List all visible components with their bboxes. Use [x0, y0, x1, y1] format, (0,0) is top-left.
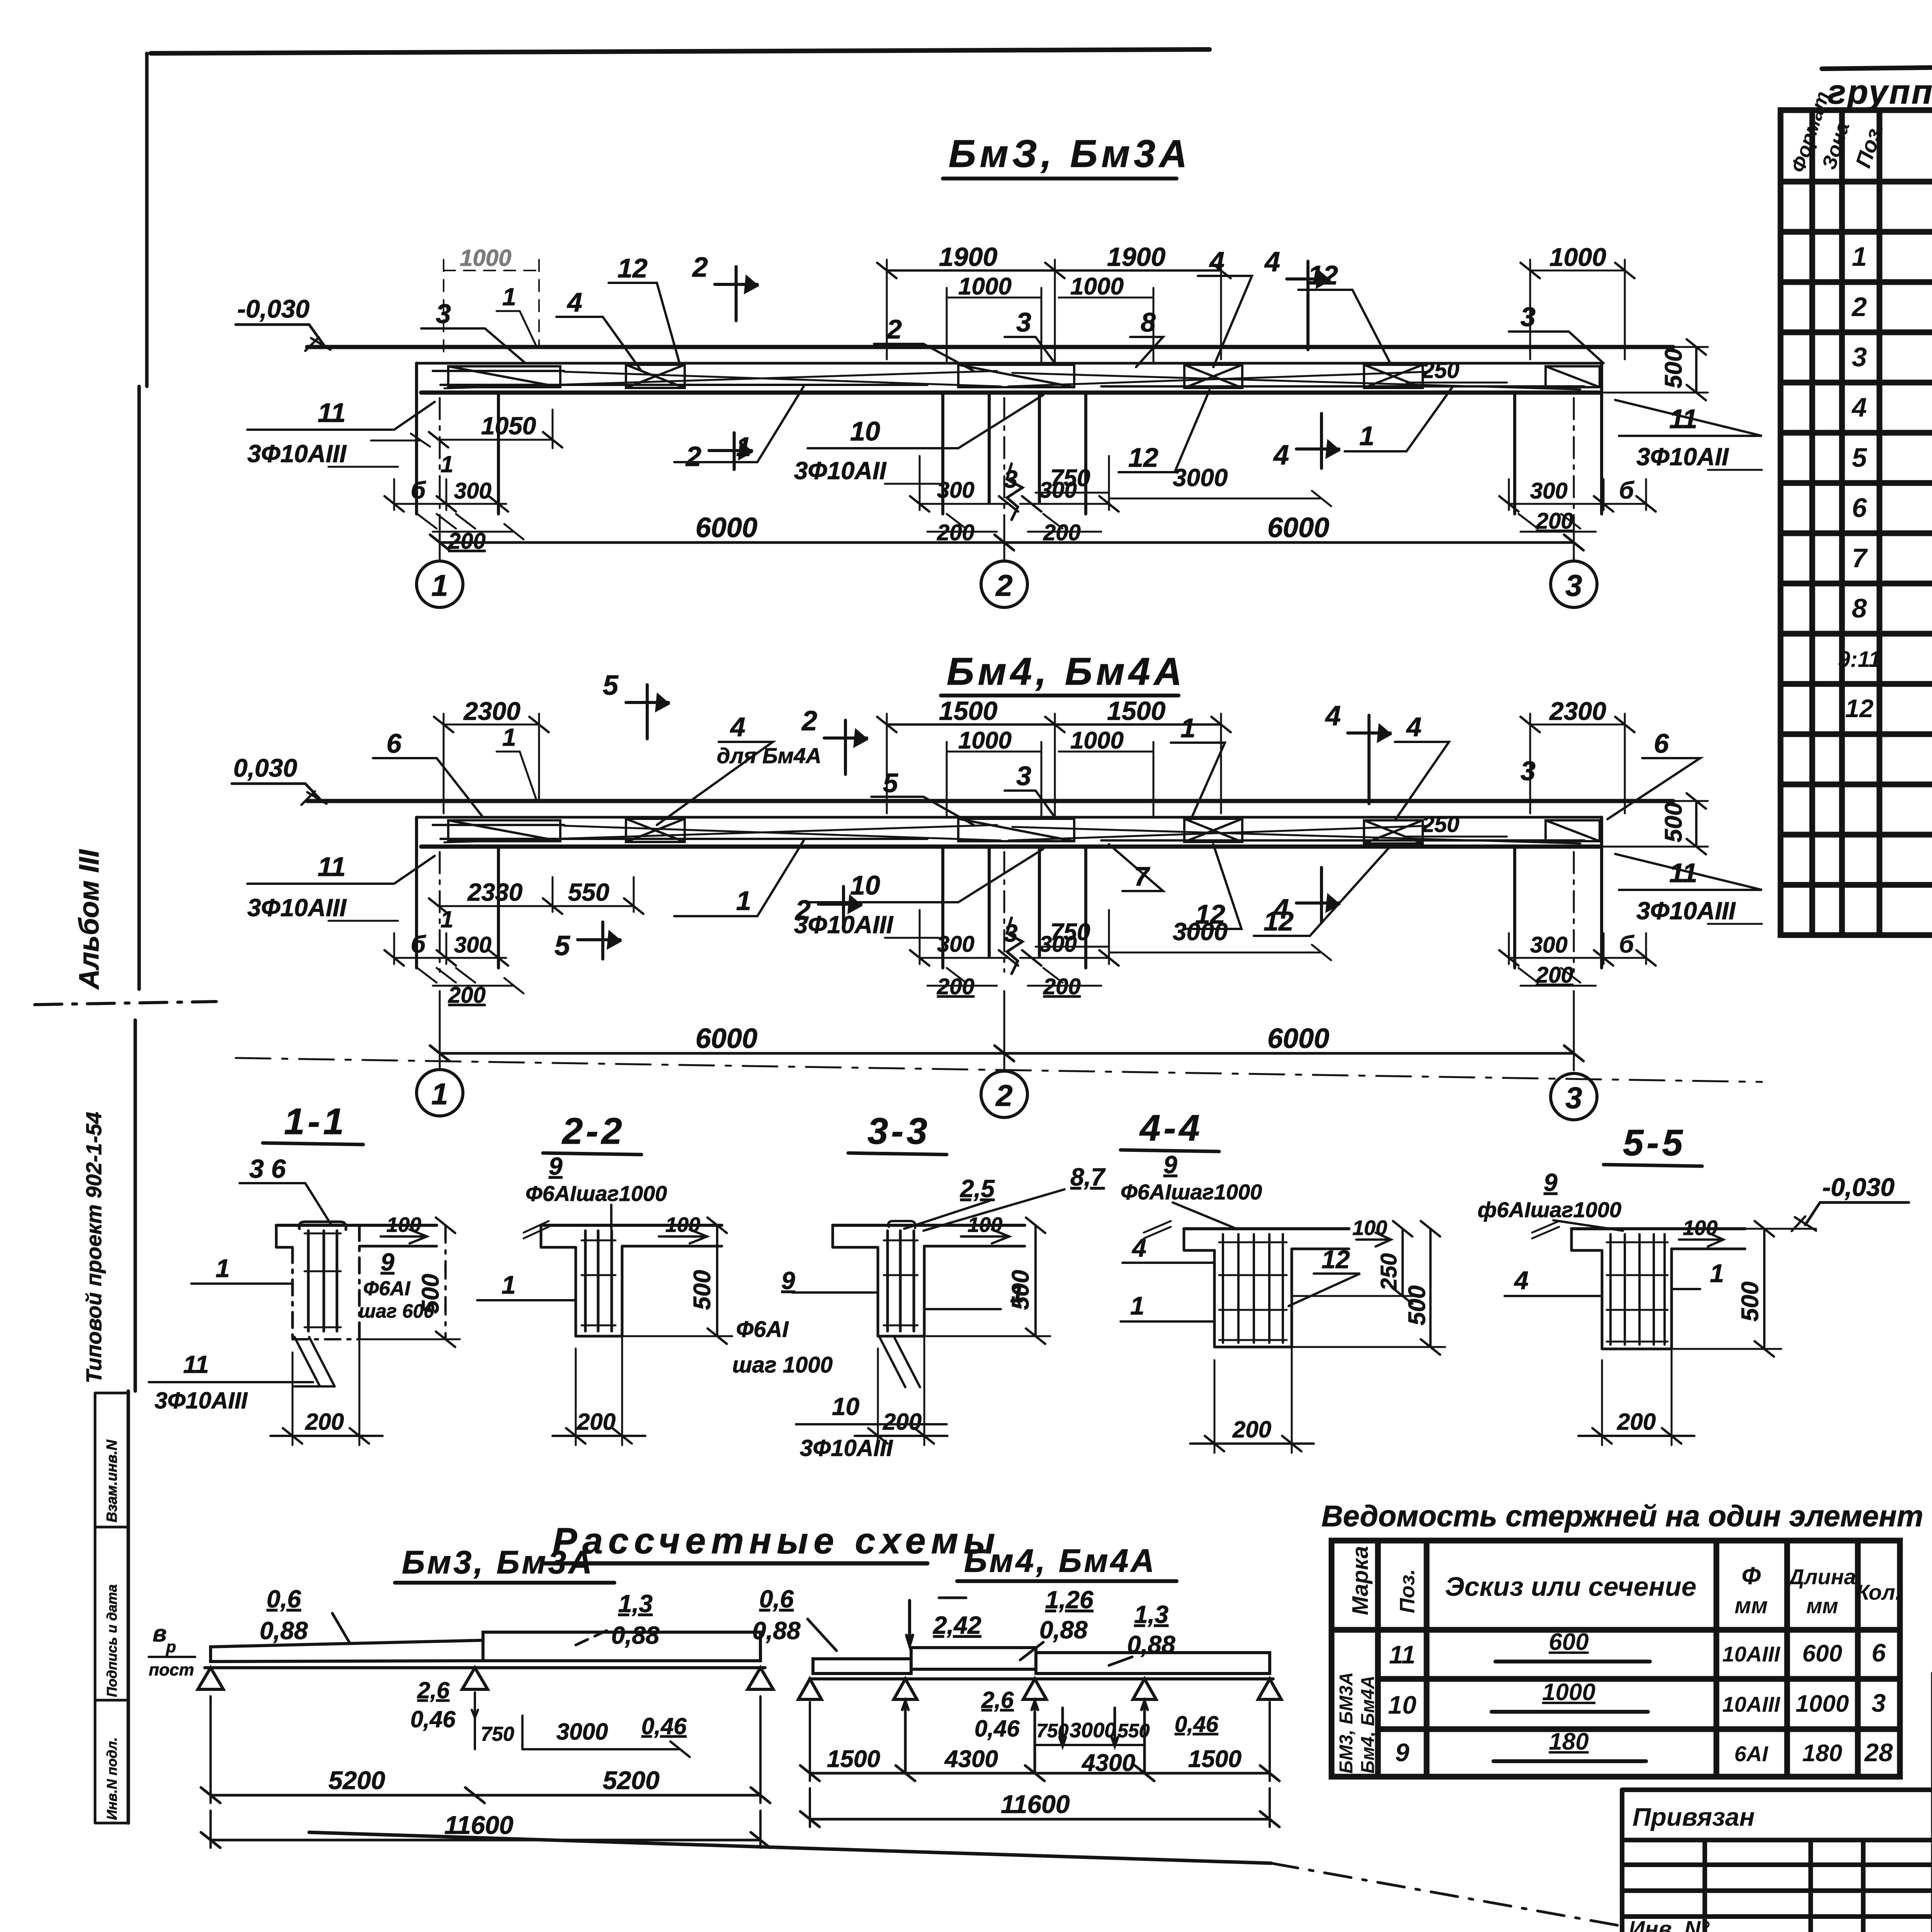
svg-text:10АIII: 10АIII	[1722, 1642, 1781, 1666]
svg-text:200: 200	[1536, 963, 1573, 988]
svg-text:3: 3	[1520, 756, 1536, 786]
svg-text:3: 3	[1565, 568, 1582, 602]
svg-text:6: 6	[386, 728, 402, 759]
svg-text:4: 4	[566, 287, 582, 317]
svg-text:пост: пост	[149, 1660, 194, 1679]
svg-text:Инв. N°: Инв. N°	[1629, 1917, 1710, 1932]
svg-text:6000: 6000	[696, 1023, 757, 1054]
svg-text:8: 8	[1852, 593, 1867, 623]
svg-text:Альбом III: Альбом III	[74, 849, 105, 990]
svg-text:3: 3	[1852, 342, 1867, 372]
svg-text:1: 1	[736, 432, 751, 462]
SPEC-TABLE top right: групповая спецификация	[1781, 73, 1932, 935]
svg-text:2: 2	[995, 1078, 1012, 1112]
svg-text:6АI: 6АI	[1734, 1742, 1769, 1766]
svg-text:7: 7	[1852, 543, 1868, 573]
svg-text:Кол.: Кол.	[1856, 1580, 1901, 1604]
svg-text:11600: 11600	[444, 1811, 514, 1839]
svg-text:250: 250	[1422, 812, 1459, 837]
svg-text:Ф6АI: Ф6АI	[736, 1317, 789, 1342]
svg-text:Рассчетные схемы: Рассчетные схемы	[553, 1520, 1000, 1561]
svg-text:6000: 6000	[1267, 1023, 1329, 1054]
svg-text:-0,030: -0,030	[1822, 1173, 1895, 1201]
svg-text:групповая спецификация для: групповая спецификация для монолитных ко…	[1828, 73, 1932, 111]
svg-text:б: б	[411, 477, 426, 504]
svg-text:1000: 1000	[1542, 1679, 1595, 1706]
svg-text:12: 12	[1845, 694, 1874, 723]
svg-text:3Ф10АIII: 3Ф10АIII	[1636, 897, 1736, 925]
svg-text:11: 11	[318, 398, 346, 428]
top dim right 1000	[1530, 260, 1625, 359]
wall centre dash-dot	[440, 398, 1574, 518]
svg-text:4: 4	[1273, 440, 1289, 471]
svg-text:1000: 1000	[460, 245, 511, 271]
svg-text:Ф6АIшаг1000: Ф6АIшаг1000	[1121, 1180, 1262, 1204]
svg-text:6000: 6000	[1267, 512, 1329, 543]
svg-text:9: 9	[381, 1248, 395, 1276]
wall bottom hatches	[417, 514, 475, 529]
svg-text:Поз.: Поз.	[1396, 1569, 1419, 1613]
support walls	[417, 363, 498, 514]
svg-text:750: 750	[1050, 465, 1090, 492]
top dims middle: 1500 1500 / 1000 1000	[887, 714, 1221, 817]
svg-text:1000: 1000	[1070, 273, 1124, 300]
svg-text:100: 100	[968, 1213, 1002, 1236]
svg-text:5: 5	[1852, 442, 1867, 473]
svg-text:1000: 1000	[958, 273, 1012, 300]
svg-text:100: 100	[1683, 1216, 1718, 1240]
beam bars	[211, 1640, 483, 1662]
svg-text:0,46: 0,46	[1175, 1712, 1219, 1737]
svg-text:6: 6	[1654, 728, 1669, 759]
svg-text:12: 12	[1321, 1245, 1350, 1274]
svg-text:1: 1	[736, 886, 751, 916]
svg-text:3: 3	[1016, 307, 1031, 337]
svg-text:2: 2	[1851, 292, 1867, 322]
svg-text:100: 100	[665, 1213, 700, 1236]
svg-text:2: 2	[801, 706, 817, 736]
svg-text:Бм4, Бм4А: Бм4, Бм4А	[964, 1543, 1156, 1579]
svg-text:Бм4, Бм4А: Бм4, Бм4А	[947, 650, 1186, 693]
svg-text:Бм3, Бм3А: Бм3, Бм3А	[402, 1544, 594, 1580]
2,42	[906, 1600, 913, 1645]
100 dim	[381, 1230, 427, 1243]
SECTION 2-2	[477, 1111, 732, 1445]
11600	[810, 1818, 1270, 1821]
svg-text:1,26: 1,26	[1045, 1586, 1094, 1614]
svg-text:Взам.инв.N: Взам.инв.N	[104, 1439, 120, 1522]
svg-text:250: 250	[1376, 1253, 1401, 1291]
svg-text:1: 1	[502, 283, 516, 311]
svg-text:4300: 4300	[944, 1746, 998, 1772]
svg-text:1000: 1000	[1549, 243, 1606, 271]
250 dim right	[1406, 382, 1507, 384]
svg-text:0,88: 0,88	[752, 1617, 801, 1645]
300 200 mid pair	[920, 456, 1009, 510]
svg-text:2: 2	[886, 314, 902, 344]
svg-text:3: 3	[1004, 919, 1018, 947]
slab top lines	[307, 799, 1673, 803]
svg-text:1: 1	[1130, 1291, 1145, 1320]
1500 4300 4300 1500	[810, 1772, 1270, 1775]
svg-text:1,3: 1,3	[618, 1590, 653, 1617]
1050 dim	[439, 410, 553, 448]
svg-text:3Ф10АIII: 3Ф10АIII	[247, 894, 347, 922]
svg-text:3: 3	[1872, 1689, 1886, 1717]
svg-text:300: 300	[454, 478, 492, 503]
svg-text:5200: 5200	[328, 1766, 385, 1794]
svg-text:180: 180	[1549, 1728, 1588, 1755]
svg-text:500: 500	[1737, 1282, 1764, 1321]
svg-text:2,5: 2,5	[960, 1175, 995, 1202]
svg-text:Ф: Ф	[1742, 1562, 1761, 1590]
svg-text:1500: 1500	[1188, 1746, 1242, 1772]
supports	[198, 1668, 773, 1689]
svg-text:9: 9	[1163, 1151, 1177, 1179]
RODS-TABLE: Ведомость стержней	[1321, 1500, 1923, 1777]
BEAM-1 elevation БмЗ, Бм3А	[236, 132, 1762, 607]
svg-text:2300: 2300	[463, 697, 520, 725]
svg-text:Ф6АI: Ф6АI	[363, 1277, 411, 1300]
500 dim	[444, 1225, 447, 1339]
svg-text:0,88: 0,88	[1127, 1631, 1175, 1658]
svg-text:0,6: 0,6	[267, 1585, 301, 1613]
svg-text:3Ф10АIII: 3Ф10АIII	[794, 911, 894, 939]
svg-text:5-5: 5-5	[1623, 1122, 1686, 1163]
svg-text:2: 2	[685, 441, 701, 472]
svg-text:4: 4	[1514, 1266, 1529, 1294]
svg-text:11: 11	[183, 1350, 209, 1378]
200 dim	[293, 1341, 359, 1445]
11600	[211, 1839, 760, 1842]
svg-text:100: 100	[1352, 1216, 1387, 1240]
svg-text:3Ф10АII: 3Ф10АII	[1636, 443, 1729, 471]
svg-text:500: 500	[1660, 803, 1687, 842]
svg-text:200: 200	[1232, 1417, 1271, 1442]
svg-text:11: 11	[1389, 1640, 1416, 1669]
svg-text:6: 6	[1852, 493, 1867, 523]
svg-text:1,3: 1,3	[1134, 1600, 1168, 1628]
SECTION 4-4	[1121, 1107, 1445, 1453]
svg-text:1: 1	[1852, 241, 1867, 272]
svg-text:5: 5	[603, 670, 619, 701]
svg-text:1-1: 1-1	[284, 1101, 347, 1142]
svg-text:300: 300	[1530, 478, 1568, 503]
svg-text:28: 28	[1864, 1738, 1893, 1767]
svg-text:200: 200	[883, 1409, 922, 1435]
embed boxes	[448, 820, 560, 841]
svg-text:р: р	[166, 1638, 176, 1656]
main dim line 6000/6000	[440, 541, 1574, 544]
svg-text:3Ф10АIII: 3Ф10АIII	[155, 1388, 248, 1413]
svg-text:1900: 1900	[939, 242, 997, 272]
CALC-SCHEMES	[149, 1520, 1281, 1848]
svg-text:1000: 1000	[1070, 727, 1124, 754]
svg-text:300: 300	[1530, 932, 1568, 957]
BEAM-2 elevation Бм4, Бм4А	[232, 650, 1762, 1120]
svg-text:3000: 3000	[1070, 1719, 1116, 1742]
svg-text:4: 4	[1209, 246, 1225, 276]
svg-text:1: 1	[431, 1077, 448, 1111]
svg-text:500: 500	[689, 1270, 716, 1310]
main dim line 6000/6000	[440, 1052, 1574, 1055]
svg-text:4-4: 4-4	[1139, 1107, 1203, 1149]
svg-text:550: 550	[1117, 1720, 1150, 1742]
b 300 200 left	[394, 933, 506, 964]
svg-text:4: 4	[730, 712, 745, 742]
b 300 200 right	[1509, 479, 1646, 510]
svg-text:8,7: 8,7	[1070, 1163, 1106, 1191]
svg-text:1: 1	[440, 906, 453, 932]
svg-text:б: б	[1619, 931, 1634, 958]
svg-text:Типовой проект 902-1-54: Типовой проект 902-1-54	[82, 1112, 106, 1383]
svg-text:Подпись и дата: Подпись и дата	[104, 1584, 120, 1697]
svg-text:3-3: 3-3	[867, 1111, 930, 1152]
svg-text:0,030: 0,030	[233, 753, 297, 782]
svg-text:500: 500	[1007, 1270, 1034, 1310]
LEFT-SIDEBAR	[74, 849, 128, 1823]
rebar band lines	[433, 371, 1584, 386]
slab top lines	[307, 345, 1673, 349]
svg-text:0,46: 0,46	[410, 1706, 456, 1732]
svg-text:Марка: Марка	[1348, 1546, 1373, 1615]
svg-text:4300: 4300	[1081, 1750, 1135, 1776]
svg-text:10: 10	[850, 870, 880, 900]
svg-text:2: 2	[692, 252, 708, 283]
svg-text:3: 3	[436, 299, 451, 329]
embed boxes	[448, 366, 560, 387]
svg-text:300: 300	[454, 932, 492, 957]
svg-text:300: 300	[937, 478, 975, 503]
svg-text:600: 600	[1549, 1629, 1588, 1655]
svg-text:6: 6	[1872, 1638, 1886, 1667]
svg-text:0,46: 0,46	[975, 1716, 1020, 1742]
svg-text:600: 600	[1802, 1640, 1842, 1667]
SECTION 1-1	[149, 1101, 460, 1445]
svg-text:6000: 6000	[696, 512, 757, 543]
svg-text:200: 200	[448, 983, 486, 1008]
svg-text:ф6АIшаг1000: ф6АIшаг1000	[1478, 1197, 1621, 1222]
svg-text:б: б	[1619, 477, 1634, 504]
svg-text:1500: 1500	[827, 1746, 880, 1772]
svg-text:300: 300	[937, 932, 975, 957]
supports	[798, 1679, 1281, 1699]
svg-text:500: 500	[417, 1274, 444, 1314]
svg-text:3: 3	[1004, 465, 1018, 493]
svg-text:Эскиз или сечение: Эскиз или сечение	[1445, 1571, 1697, 1602]
svg-text:3000: 3000	[556, 1719, 608, 1745]
svg-text:200: 200	[1617, 1409, 1656, 1435]
svg-text:1: 1	[1710, 1259, 1724, 1287]
svg-text:0,6: 0,6	[759, 1585, 794, 1613]
svg-text:1: 1	[502, 1270, 516, 1299]
svg-text:500: 500	[1404, 1286, 1430, 1325]
svg-text:7: 7	[1134, 861, 1150, 891]
svg-text:1: 1	[440, 451, 453, 477]
svg-text:8: 8	[1141, 307, 1156, 337]
svg-text:1050: 1050	[481, 412, 536, 440]
svg-text:500: 500	[1660, 349, 1687, 388]
svg-text:1500: 1500	[939, 696, 997, 726]
svg-text:12: 12	[617, 253, 648, 283]
svg-text:4: 4	[1131, 1233, 1146, 1262]
svg-text:1: 1	[431, 568, 448, 602]
svg-text:0,88: 0,88	[260, 1617, 308, 1645]
svg-text:9: 9	[1544, 1168, 1558, 1196]
svg-text:750: 750	[481, 1723, 514, 1745]
svg-text:5: 5	[883, 768, 898, 798]
svg-text:3000: 3000	[1173, 464, 1228, 492]
svg-text:250: 250	[1422, 358, 1459, 383]
svg-text:шаг 1000: шаг 1000	[732, 1352, 833, 1378]
support walls	[417, 817, 498, 968]
svg-text:3000: 3000	[1173, 918, 1228, 946]
b 300 200 right	[1509, 933, 1646, 964]
svg-text:БмЗ, Бм3А: БмЗ, Бм3А	[949, 132, 1191, 175]
svg-text:4: 4	[1406, 712, 1422, 742]
top dim left 2300	[444, 714, 539, 813]
svg-text:3: 3	[1565, 1081, 1582, 1115]
svg-text:3: 3	[1016, 761, 1031, 791]
svg-text:3Ф10АII: 3Ф10АII	[794, 457, 887, 485]
svg-text:мм: мм	[1735, 1593, 1768, 1618]
svg-text:2,42: 2,42	[933, 1611, 981, 1639]
svg-text:12: 12	[1128, 442, 1158, 473]
svg-text:Привязан: Привязан	[1633, 1803, 1755, 1831]
500 dim right	[1604, 347, 1708, 393]
svg-text:4: 4	[1264, 247, 1280, 277]
svg-text:мм: мм	[1806, 1594, 1838, 1618]
svg-text:Инв.N подл.: Инв.N подл.	[104, 1737, 120, 1820]
svg-text:11600: 11600	[1001, 1790, 1070, 1818]
svg-text:10: 10	[850, 416, 880, 446]
svg-text:9: 9	[781, 1267, 795, 1294]
svg-text:Длина: Длина	[1787, 1565, 1856, 1589]
svg-text:200: 200	[305, 1409, 344, 1435]
top dims middle: 1900 1900 / 1000 1000	[887, 260, 1221, 363]
svg-text:1: 1	[1359, 421, 1374, 451]
svg-text:Бм4, Бм4А: Бм4, Бм4А	[1358, 1675, 1378, 1774]
svg-text:1000: 1000	[1796, 1690, 1849, 1717]
svg-text:-0,030: -0,030	[237, 294, 310, 323]
svg-text:Ведомость стержней на один эл: Ведомость стержней на один элемент	[1321, 1500, 1923, 1533]
break zigzag at axis2	[1007, 464, 1022, 520]
svg-text:2,6: 2,6	[417, 1677, 450, 1703]
svg-text:3: 3	[1520, 302, 1536, 332]
rebar band lines	[433, 825, 1584, 840]
svg-text:0,46: 0,46	[641, 1713, 687, 1739]
svg-text:1500: 1500	[1107, 696, 1165, 726]
svg-text:2330: 2330	[467, 878, 522, 906]
svg-text:5200: 5200	[603, 1766, 660, 1794]
svg-text:3Ф10АIII: 3Ф10АIII	[800, 1435, 893, 1461]
svg-text:1900: 1900	[1107, 242, 1165, 272]
svg-text:4: 4	[1325, 701, 1341, 731]
5200 5200	[211, 1794, 760, 1797]
svg-text:2-2: 2-2	[561, 1111, 625, 1152]
svg-text:для Бм4А: для Бм4А	[717, 743, 821, 768]
svg-text:2: 2	[995, 568, 1012, 602]
svg-text:550: 550	[568, 878, 609, 906]
300 200 mid pair	[920, 910, 1009, 964]
svg-text:200: 200	[1536, 509, 1573, 534]
svg-text:2,6: 2,6	[981, 1687, 1014, 1713]
svg-text:10АIII: 10АIII	[1722, 1692, 1781, 1716]
svg-text:1: 1	[1180, 713, 1196, 743]
axis circles	[417, 561, 463, 607]
svg-text:4: 4	[1851, 392, 1867, 422]
top dim right 2300	[1530, 714, 1625, 813]
svg-text:Ф6АIшаг1000: Ф6АIшаг1000	[526, 1181, 667, 1206]
reaction/load arrows	[902, 1701, 908, 1773]
beam bars	[813, 1659, 911, 1673]
axis circles	[417, 1070, 463, 1116]
svg-text:в: в	[153, 1621, 167, 1646]
svg-text:750: 750	[1050, 919, 1090, 946]
svg-text:10: 10	[1388, 1690, 1417, 1719]
svg-text:0,88: 0,88	[1039, 1616, 1088, 1644]
svg-text:0,88: 0,88	[611, 1621, 660, 1649]
svg-text:750: 750	[1036, 1720, 1069, 1742]
svg-text:11: 11	[318, 852, 346, 882]
svg-text:1: 1	[216, 1254, 230, 1282]
svg-text:3 6: 3 6	[249, 1154, 286, 1184]
svg-text:9: 9	[549, 1152, 563, 1180]
2330 550 dims	[439, 877, 634, 912]
svg-text:200: 200	[577, 1409, 616, 1435]
SECTION 5-5	[1478, 1122, 1909, 1445]
svg-text:100: 100	[386, 1213, 421, 1236]
250 / 500 dims right	[1406, 836, 1507, 838]
svg-text:10: 10	[832, 1393, 859, 1420]
long dash-dot baseline	[236, 1058, 1762, 1082]
svg-text:12: 12	[1264, 906, 1294, 936]
svg-text:9: 9	[1395, 1738, 1410, 1767]
AUX-TABLE: Привязан + inventory grid	[1622, 1790, 1932, 1932]
top dim left 1000 dashed	[444, 260, 539, 359]
svg-text:2300: 2300	[1549, 697, 1606, 725]
svg-text:1000: 1000	[958, 727, 1012, 754]
svg-text:БМ3, БМ3А: БМ3, БМ3А	[1336, 1672, 1357, 1774]
svg-text:3Ф10АIII: 3Ф10АIII	[247, 440, 347, 468]
b 300 200 left	[394, 479, 506, 510]
svg-text:б: б	[411, 931, 426, 958]
svg-text:9:11: 9:11	[1838, 647, 1881, 672]
svg-text:1: 1	[502, 723, 516, 751]
svg-text:180: 180	[1802, 1740, 1842, 1767]
SECTION 3-3	[732, 1111, 1106, 1461]
svg-text:5: 5	[554, 930, 570, 961]
